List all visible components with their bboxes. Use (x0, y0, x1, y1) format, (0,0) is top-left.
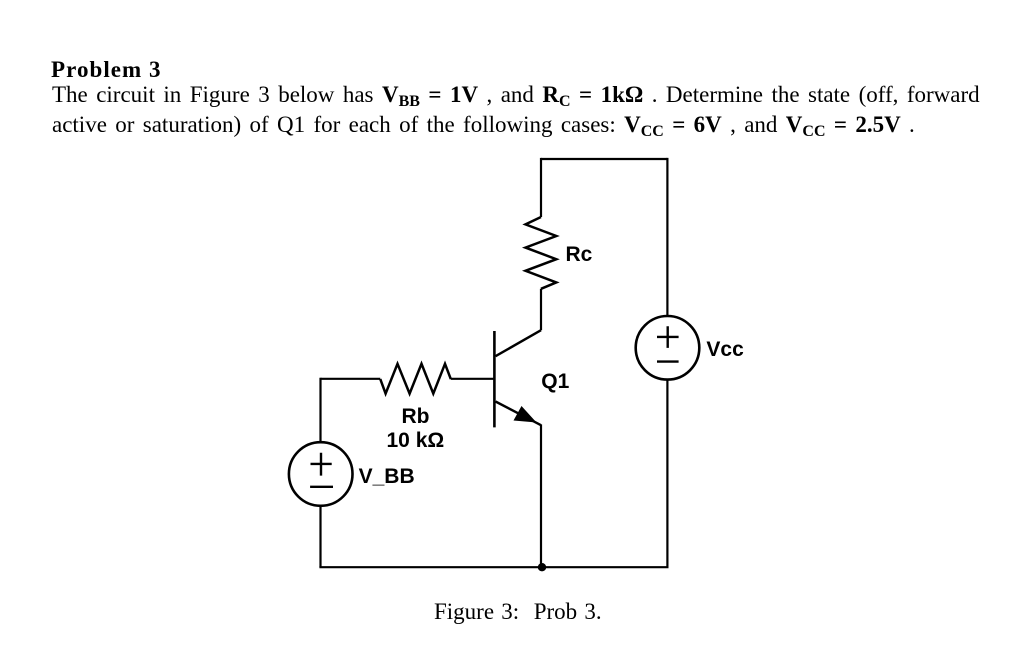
label 10 kOhm (387, 430, 445, 451)
wire right lower vertical (666, 380, 668, 568)
source Vcc circle (636, 316, 700, 380)
resistor Rc (526, 217, 557, 289)
paragraph line 1 (52, 82, 980, 111)
source V_BB minus sign (310, 486, 333, 488)
transistor Q1 base bar (493, 331, 496, 427)
transistor Q1 emitter arrowhead (514, 406, 537, 423)
transistor Q1 collector diagonal (496, 330, 542, 356)
figure caption (434, 599, 602, 625)
heading "Problem 3" (51, 57, 162, 83)
wire bottom horizontal (319, 566, 668, 568)
label V_BB (359, 466, 415, 487)
source V_BB plus sign (311, 453, 332, 476)
wire collector upper vertical (540, 158, 542, 217)
wire left upper vertical (319, 378, 321, 443)
wire top horizontal (541, 158, 667, 160)
wire collector middle vertical (540, 289, 542, 330)
transistor Q1 emitter diagonal (496, 402, 542, 426)
label Q1 (541, 371, 569, 392)
wire base horizontal (451, 378, 495, 380)
source Vcc minus sign (657, 360, 679, 362)
label Vcc (706, 339, 743, 360)
junction node dot (538, 563, 546, 571)
source Vcc plus sign (657, 326, 679, 348)
wire right upper vertical (666, 158, 668, 316)
source V_BB circle (289, 442, 353, 506)
wire emitter vertical (540, 425, 542, 568)
label Rc (566, 244, 593, 265)
paragraph line 2 (52, 112, 915, 141)
label Rb (402, 406, 430, 427)
wire left lower vertical (319, 506, 321, 567)
wire base-left horizontal (321, 378, 381, 380)
resistor Rb (380, 364, 451, 394)
